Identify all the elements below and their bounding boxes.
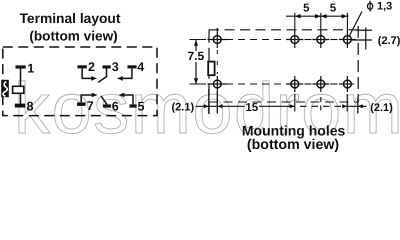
pin 3 movable contact blade [98, 68, 106, 82]
dimension value (2.1) left [172, 102, 195, 114]
mounting hole H6 (bottom row) [286, 76, 303, 92]
pin 7 fixed contact wire with arrow [81, 93, 97, 103]
title: (bottom view) right [247, 137, 339, 153]
svg-text:4: 4 [137, 60, 144, 74]
svg-text:(2.1): (2.1) [172, 102, 195, 114]
hole diameter callout phi 1,3 [350, 1, 393, 36]
case orientation notch (terminal layout) [1, 80, 9, 97]
svg-text:15: 15 [245, 102, 258, 114]
svg-text:3: 3 [112, 60, 119, 74]
bottom extension lines from holes [295, 94, 358, 114]
dimension (2.1) left line and ticks [196, 89, 245, 114]
svg-text:6: 6 [112, 100, 119, 114]
mounting hole H3 (top row) [312, 31, 329, 48]
pin 8 label [27, 99, 34, 113]
dimension value 7.5 [188, 49, 205, 63]
terminal layout case outline (dashed) [3, 47, 157, 116]
relay body outline left edge (dashed) [208, 30, 210, 114]
svg-text:(bottom view): (bottom view) [247, 137, 339, 153]
svg-text:2: 2 [88, 60, 95, 74]
svg-text:(2.7): (2.7) [378, 35, 400, 47]
bottom center dash line [300, 105, 343, 107]
pin 3 terminal bar [103, 65, 111, 68]
relay body outline bottom edge (dashed) [209, 101, 358, 103]
pin 4 label [137, 60, 144, 74]
dimension 7.5 (left hole column) [190, 40, 207, 85]
pin 1 label [27, 62, 34, 76]
dimension value (2.7) [378, 35, 400, 47]
center line bottom hole row (dash-dot) [226, 83, 338, 85]
pin 1 terminal bar [16, 65, 26, 68]
svg-text:8: 8 [27, 99, 34, 113]
svg-text:5: 5 [303, 3, 310, 15]
pin 7 label [87, 99, 94, 113]
coil [13, 86, 24, 93]
pin 4 fixed contact wire with arrow [117, 68, 132, 80]
svg-text:(bottom view): (bottom view) [29, 29, 117, 44]
dimension (2.7) ticks and arrows [352, 28, 373, 50]
mounting hole H8 (bottom right) [339, 76, 354, 92]
svg-text:1: 1 [27, 62, 34, 76]
center line top hole row (dash-dot) [226, 39, 338, 41]
pin 6 movable contact blade [101, 96, 107, 105]
coil wire pin1 to coil [20, 68, 22, 86]
pin 8 terminal bar [15, 104, 25, 108]
svg-text:7: 7 [87, 99, 94, 113]
mounting hole H7 (bottom row) [312, 76, 329, 92]
pin 2 fixed contact wire with arrow [82, 68, 97, 80]
watermark kosmodrom [14, 69, 400, 149]
pin 2 terminal bar [78, 65, 87, 68]
pin 2 label [88, 60, 95, 74]
mounting hole H1 (top left) [208, 28, 228, 48]
title: Terminal layout [20, 11, 121, 26]
coil wire coil to pin8 [20, 93, 22, 104]
case orientation notch (mounting holes) [208, 62, 214, 76]
dimension 5 (H2-H3) extension and value [286, 3, 349, 32]
dimension value (2.1) right [370, 102, 393, 114]
title: Mounting holes [242, 123, 346, 139]
svg-text:7.5: 7.5 [188, 49, 205, 63]
svg-text:1,3: 1,3 [377, 1, 392, 13]
dimension (2.1) right arrows [342, 104, 366, 108]
mounting hole H2 (top row) [286, 31, 303, 48]
pin 4 terminal bar [128, 65, 137, 68]
pin 5 fixed contact wire with arrow [119, 93, 133, 105]
mounting hole H5 (bottom left) [208, 76, 228, 92]
pin 3 label [112, 60, 119, 74]
relay body outline top edge (dashed) [209, 29, 359, 31]
pin 5 terminal bar [130, 104, 137, 107]
dimension 15 line and value [245, 102, 294, 114]
pin 7 terminal bar [77, 102, 86, 106]
pin 6 label [112, 100, 119, 114]
relay body outline right edge (dashed) [357, 26, 359, 102]
pin 6 terminal bar [103, 104, 111, 107]
pin 5 label [138, 100, 145, 114]
svg-text:Terminal layout: Terminal layout [20, 11, 121, 26]
title: (bottom view) left [29, 29, 117, 44]
svg-text:5: 5 [138, 100, 145, 114]
center line left hole column (dash-dot) [216, 50, 218, 74]
svg-text:(2.1): (2.1) [370, 102, 393, 114]
mounting hole H4 (top right) [339, 31, 356, 48]
svg-text:5: 5 [330, 3, 337, 15]
